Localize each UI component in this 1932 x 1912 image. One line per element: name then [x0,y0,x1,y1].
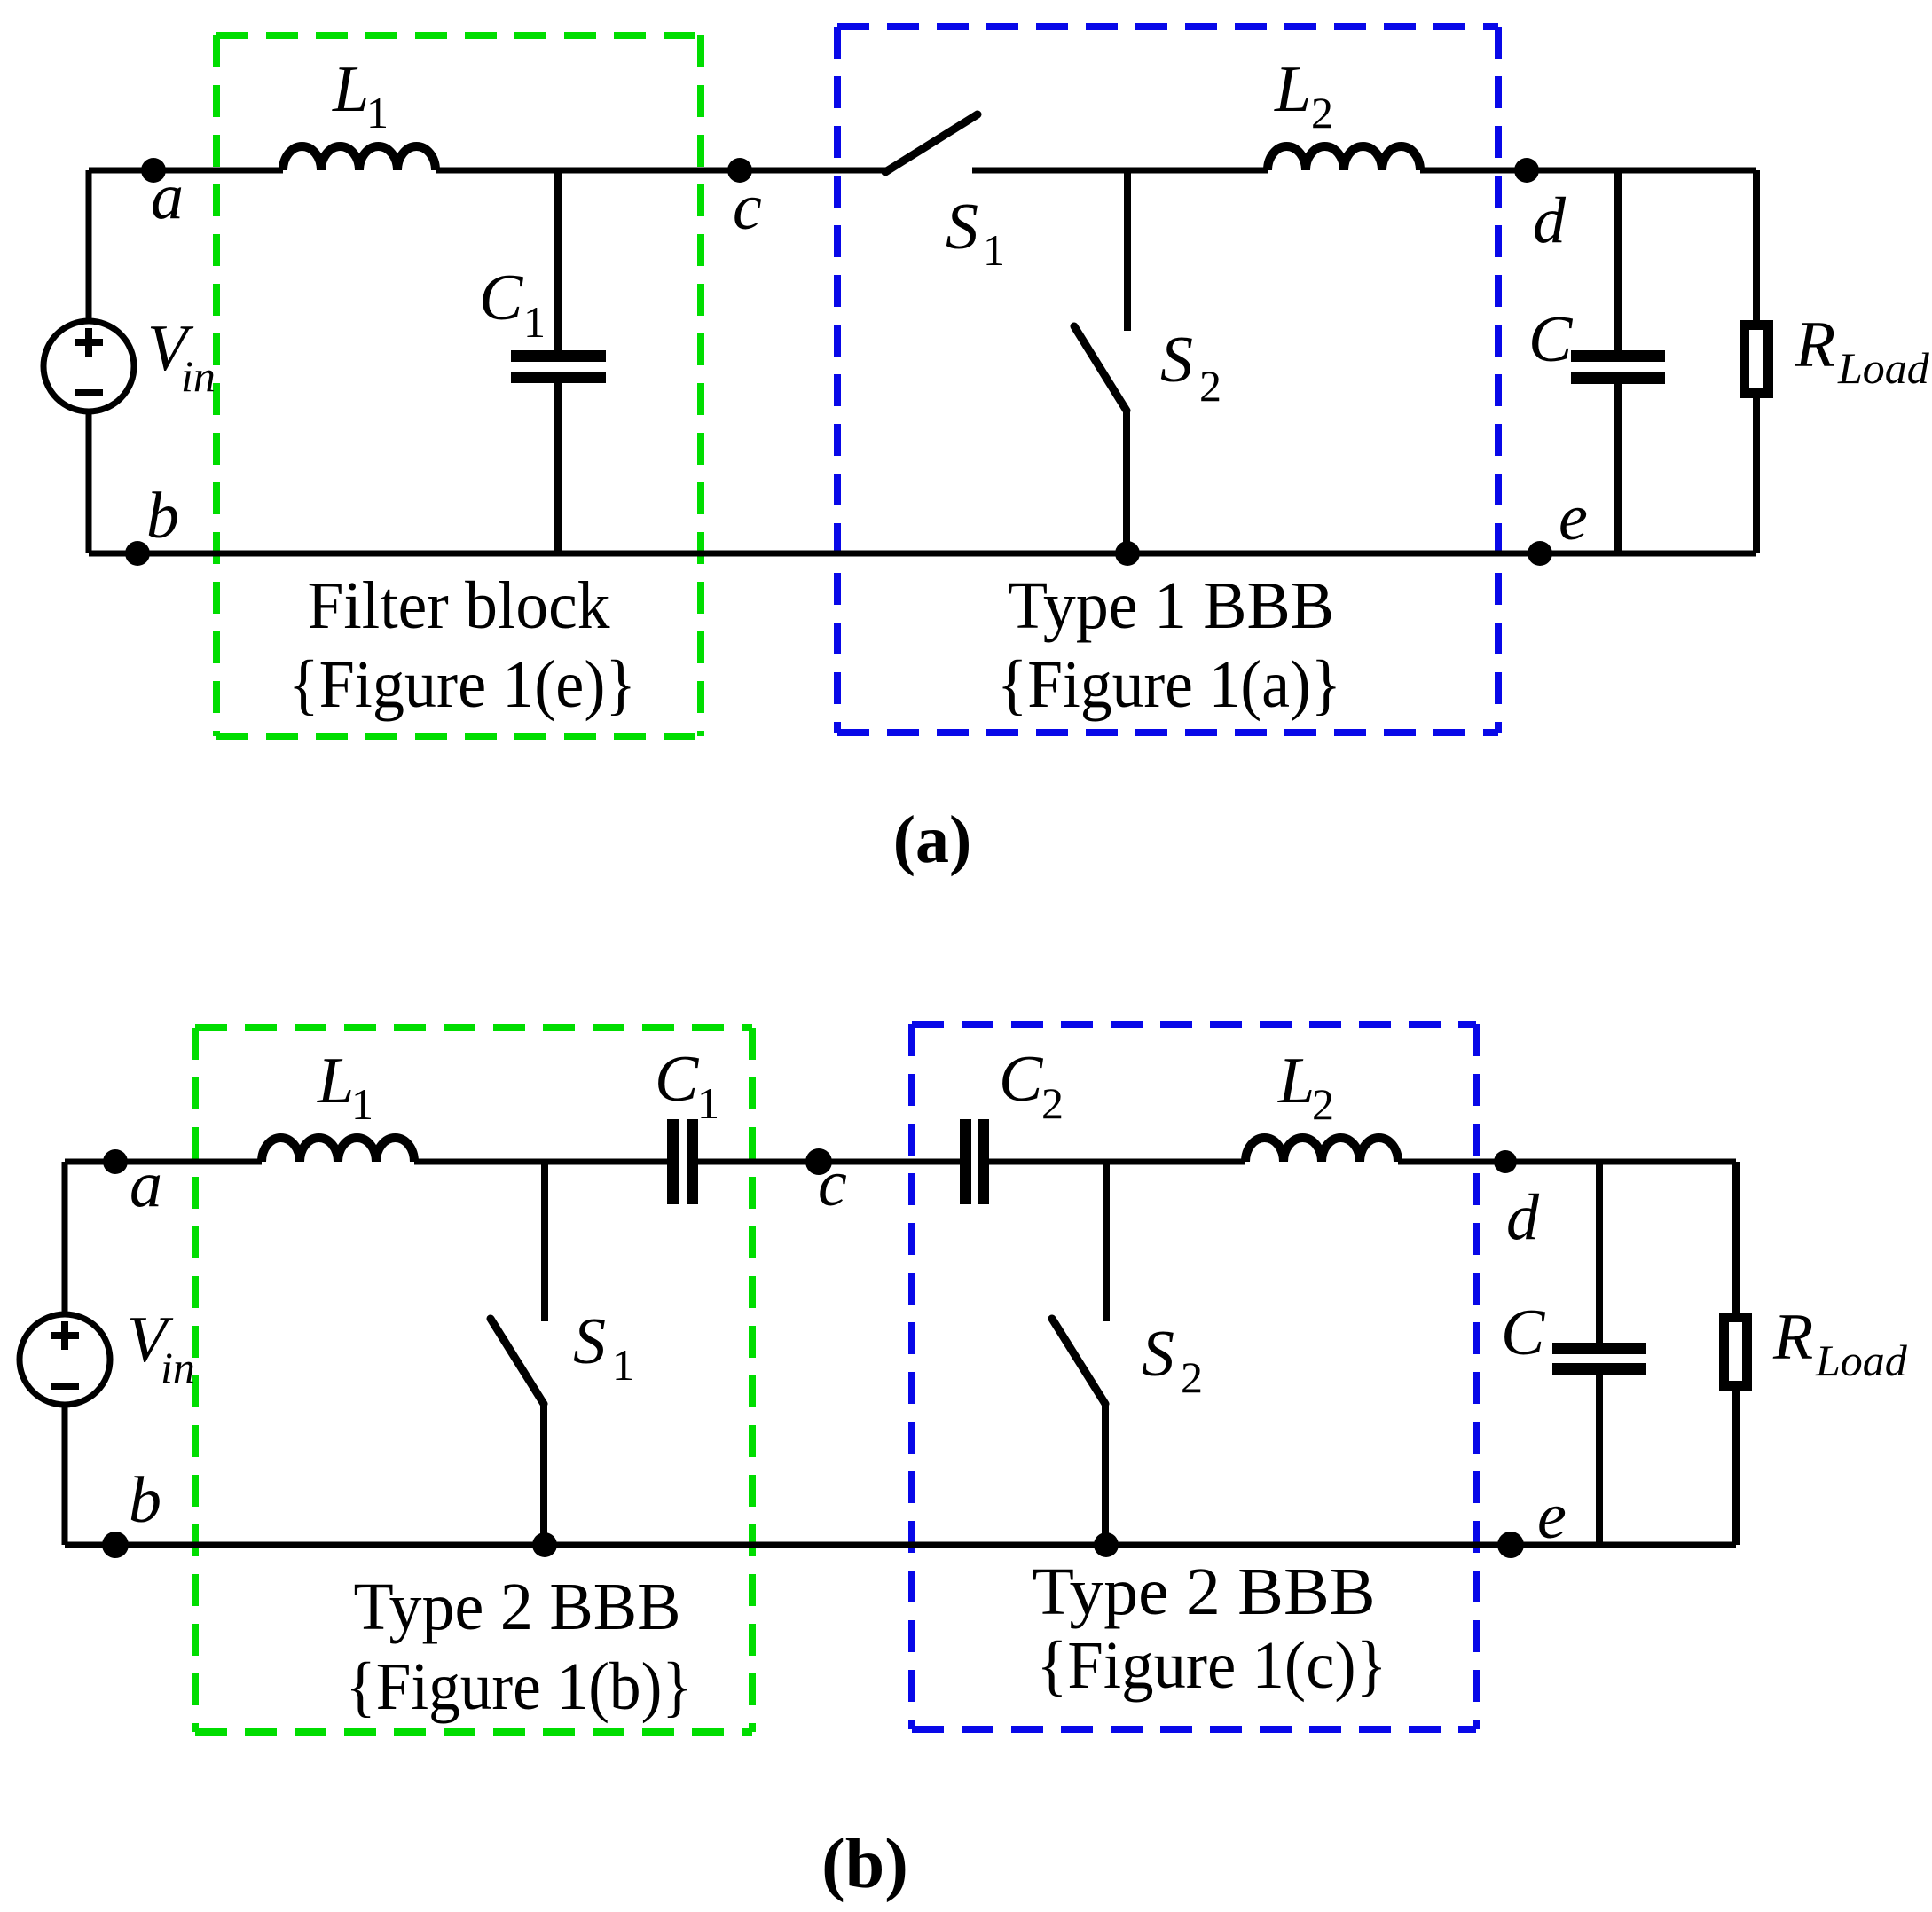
Vin plus sign [51,1321,79,1350]
capacitor C1 plates [511,350,606,362]
bottom wire [89,551,1756,557]
right wire upper [1732,1162,1740,1317]
svg-text:a: a [151,161,184,233]
resistor R_Load body [1745,325,1769,394]
svg-text:L: L [317,1045,354,1117]
svg-text:2: 2 [1311,88,1333,137]
bottom wire [65,1542,1736,1548]
svg-text:1: 1 [612,1340,634,1390]
svg-text:2: 2 [1181,1352,1203,1402]
svg-text:C: C [655,1043,700,1116]
wire top left a-to-L1 [65,1159,262,1165]
inductor L2 [1245,1138,1398,1162]
svg-text:2: 2 [1312,1079,1334,1129]
left wire upper [86,170,92,321]
svg-text:S: S [946,191,978,263]
node a [141,158,166,183]
svg-text:1: 1 [366,88,389,137]
wire L1 to switch S1 [436,168,886,174]
svg-text:C: C [999,1043,1044,1116]
inductor L2 [1268,146,1420,170]
svg-text:S: S [573,1305,606,1378]
svg-text:C: C [479,262,524,334]
node e [1497,1532,1524,1558]
svg-text:Type 2 BBB: Type 2 BBB [1033,1555,1376,1629]
svg-text:a: a [130,1148,162,1221]
svg-text:{Figure 1(a)}: {Figure 1(a)} [997,647,1341,722]
junction S2-bottom [1115,541,1140,566]
node b [125,541,150,566]
right wire upper [1753,170,1760,325]
resistor R_Load body [1724,1318,1747,1386]
svg-text:c: c [733,171,762,244]
svg-text:C: C [1501,1297,1546,1369]
switch S1 blade [491,1319,544,1404]
capacitor C lower stub [1596,1375,1603,1545]
blue dashed box: Type 2 BBB right [912,1021,1476,1028]
svg-text:{Figure 1(c)}: {Figure 1(c)} [1037,1628,1387,1703]
wire C1 to C2 [698,1159,960,1165]
svg-text:S: S [1160,324,1193,396]
svg-text:(b): (b) [821,1825,908,1903]
switch S1 lower stub [540,1402,547,1545]
svg-text:Type 2 BBB: Type 2 BBB [354,1570,681,1644]
switch S2 lower stub [1102,1402,1109,1545]
svg-text:S: S [1142,1318,1174,1391]
capacitor C plates [1552,1343,1646,1354]
capacitor C plates [1571,350,1665,362]
Vin plus sign [75,328,103,357]
svg-text:R: R [1795,309,1835,381]
green dashed box: Filter block [216,32,701,39]
wire C2 to L2 [989,1159,1245,1165]
wire L2 to top right corner [1420,168,1756,174]
switch S2 upper stub [1124,170,1131,331]
node d [1494,1150,1517,1173]
right wire lower [1753,394,1760,553]
Vin minus sign [51,1383,79,1390]
inductor L1 [262,1138,414,1162]
svg-text:b: b [146,480,179,552]
node c [805,1148,832,1175]
svg-text:2: 2 [1199,361,1221,411]
svg-text:e: e [1559,482,1588,554]
capacitor C upper stub [1614,170,1622,350]
svg-text:Load: Load [1815,1336,1908,1385]
svg-text:Filter block: Filter block [308,568,610,643]
node b [102,1532,129,1558]
svg-text:Load: Load [1837,343,1930,393]
svg-text:1: 1 [523,297,546,347]
capacitor C lower stub [1614,384,1622,553]
svg-text:{Figure 1(b)}: {Figure 1(b)} [346,1649,693,1724]
capacitor C upper stub [1596,1162,1603,1343]
svg-text:b: b [129,1464,161,1537]
svg-text:(a): (a) [893,803,972,877]
switch S2 blade [1052,1319,1105,1404]
svg-text:1: 1 [983,225,1005,275]
capacitor C1 lower stub [554,383,562,553]
wire L1 to C1 [414,1159,667,1165]
left wire lower [62,1405,68,1545]
node e [1528,541,1552,566]
svg-text:L: L [1274,53,1311,126]
svg-text:L: L [1277,1045,1315,1117]
svg-text:C: C [1528,303,1574,376]
capacitor C1 upper stub [554,170,562,350]
svg-text:e: e [1537,1480,1567,1553]
switch S2 upper stub [1103,1162,1110,1321]
capacitor C1 plates (series) [667,1119,679,1204]
Vin minus sign [75,389,103,396]
svg-text:1: 1 [351,1079,373,1129]
svg-text:in: in [181,351,216,401]
svg-text:2: 2 [1041,1078,1064,1128]
svg-text:L: L [332,53,369,126]
switch S2 blade [1074,326,1127,411]
wire L2 to top right corner [1398,1159,1736,1165]
capacitor C2 plates (series) [960,1119,971,1204]
voltage source Vin circle [20,1314,110,1405]
svg-text:d: d [1533,184,1567,257]
svg-text:in: in [161,1343,195,1392]
svg-text:{Figure 1(e)}: {Figure 1(e)} [288,647,636,722]
switch S1 upper stub [541,1162,548,1321]
svg-text:c: c [818,1148,847,1220]
junction S1-bottom [532,1532,557,1557]
junction S2-bottom [1094,1532,1119,1557]
blue dashed box: Type 1 BBB [837,23,1498,30]
svg-text:d: d [1506,1181,1540,1254]
voltage source Vin circle [43,321,134,411]
left wire upper [62,1162,68,1314]
wire S1 to L2 [972,168,1268,174]
inductor L1 [283,146,436,170]
node c [727,158,752,183]
svg-text:Type 1 BBB: Type 1 BBB [1008,568,1334,643]
switch S2 lower stub [1123,409,1130,553]
svg-text:R: R [1772,1301,1813,1374]
wire top left a-to-L1 [89,168,283,174]
svg-text:1: 1 [697,1078,719,1128]
node a [103,1149,128,1174]
switch S1 blade [885,114,978,172]
green dashed box: Type 2 BBB left [195,1024,752,1031]
left wire lower [86,411,92,553]
node d [1514,158,1539,183]
right wire lower [1732,1386,1740,1545]
